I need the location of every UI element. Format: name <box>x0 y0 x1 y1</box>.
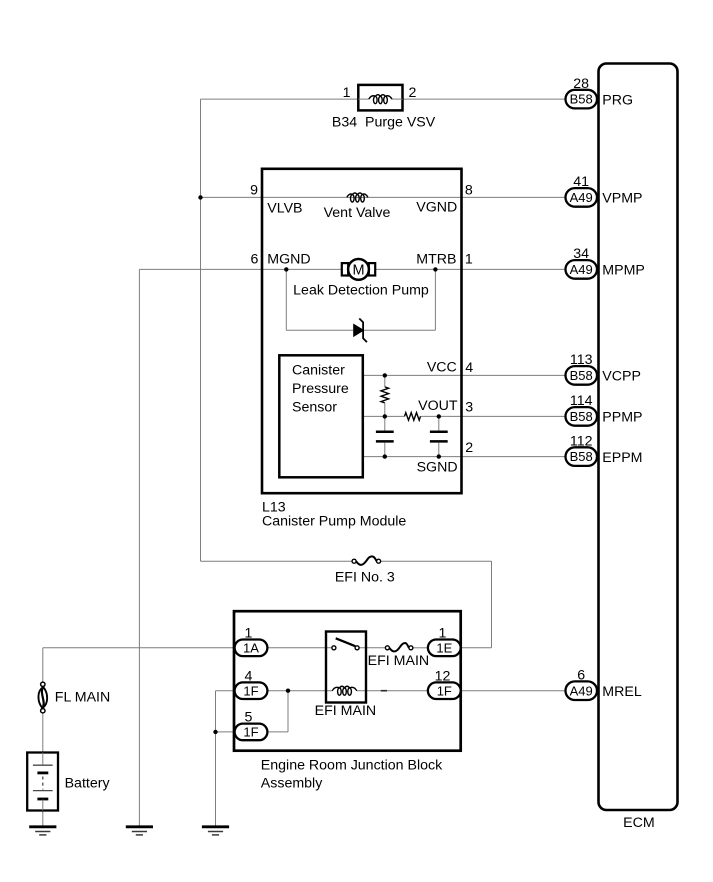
svg-text:9: 9 <box>250 182 258 198</box>
node: junction dot inside block on MREL row <box>286 689 290 693</box>
svg-text:Canister Pump Module: Canister Pump Module <box>262 513 406 529</box>
svg-text:8: 8 <box>465 182 473 198</box>
svg-text:Vent Valve: Vent Valve <box>324 205 391 221</box>
svg-text:34: 34 <box>573 246 589 262</box>
svg-text:112: 112 <box>570 433 593 449</box>
capacitor C1 (VOUT to SGND, left) <box>376 416 394 456</box>
motor M1 Leak Detection Pump <box>342 259 375 280</box>
svg-text:PPMP: PPMP <box>602 410 642 426</box>
wire: 1F-5 branch to ground rail and internal tee <box>216 691 289 732</box>
wire: VOUT net (sensor to ECM B58-114) <box>363 415 566 417</box>
node: dot SGND right junction <box>437 454 441 458</box>
svg-text:6: 6 <box>251 251 259 267</box>
svg-text:2: 2 <box>409 85 417 101</box>
wire: VCC net (sensor to ECM B58-113) <box>363 374 566 376</box>
svg-text:MREL: MREL <box>602 684 642 700</box>
ground (junction block 1F rail) <box>202 827 229 835</box>
wire: PRG net (Purge VSV pin2 to ECM B58-28, pin1 to left rail) <box>201 99 566 561</box>
svg-text:VCPP: VCPP <box>602 369 641 385</box>
svg-text:SGND: SGND <box>417 459 458 475</box>
wire: VLVB net (left rail tee to Vent Valve pin9 / VPMP to ECM A49-41) <box>201 196 566 198</box>
svg-text:FL MAIN: FL MAIN <box>55 689 110 705</box>
svg-text:MPMP: MPMP <box>602 263 645 279</box>
svg-text:1F: 1F <box>437 683 452 698</box>
node: dot VCC junction <box>383 373 387 377</box>
wire: MGND/MPMP net (ground rail, pump motor, ECM A49-34) <box>139 269 565 826</box>
resistor R1 (vertical, VCC to VOUT) <box>381 375 389 416</box>
battery BAT1 <box>27 753 58 811</box>
svg-text:28: 28 <box>573 76 589 92</box>
wire: pump bypass loop with zener <box>286 269 435 330</box>
svg-text:VPMP: VPMP <box>602 191 642 207</box>
connector 1F pin 5 <box>235 724 268 741</box>
inductor Vent Valve <box>346 193 369 202</box>
module box L13 Canister Pump Module <box>262 169 462 493</box>
connector 1A pin 1 <box>235 640 268 657</box>
connector 1E pin 1 <box>428 640 461 657</box>
svg-text:A49: A49 <box>570 190 593 205</box>
svg-text:1E: 1E <box>436 640 452 655</box>
capacitor C2 (VOUT to SGND, right) <box>430 416 448 456</box>
svg-text:PRG: PRG <box>602 92 633 108</box>
svg-text:EFI No. 3: EFI No. 3 <box>335 570 395 586</box>
svg-text:4: 4 <box>465 360 473 376</box>
connector 1F pin 4 <box>235 682 268 699</box>
wire: battery positive rail through FL MAIN <box>42 648 44 827</box>
svg-text:VLVB: VLVB <box>267 200 302 216</box>
connector A49 pin 34 (MPMP) <box>566 260 598 279</box>
connector 1F pin 12 <box>428 682 461 699</box>
svg-text:EFI MAIN: EFI MAIN <box>315 703 376 719</box>
svg-text:B58: B58 <box>570 368 593 383</box>
connector B58 pin 28 (PRG) <box>566 90 598 109</box>
wire: MREL net (1F-4 ground side, relay coil, 1F-12 to ECM A49-6) <box>216 691 566 827</box>
node: junction dot on ground rail at 1F-5 branch <box>213 730 217 734</box>
svg-text:MTRB: MTRB <box>416 251 456 267</box>
svg-text:12: 12 <box>435 668 451 684</box>
svg-text:3: 3 <box>465 400 473 416</box>
svg-text:2: 2 <box>465 440 473 456</box>
svg-text:Pressure: Pressure <box>292 381 349 397</box>
ground (MGND rail) <box>126 827 153 835</box>
svg-text:Battery: Battery <box>65 776 111 792</box>
svg-text:B58: B58 <box>570 409 593 424</box>
svg-text:6: 6 <box>577 667 585 683</box>
svg-text:5: 5 <box>244 710 252 726</box>
svg-text:114: 114 <box>570 393 593 409</box>
wire: battery feed to 1A (row through relay switch to EFI MAIN fuse and 1E) <box>43 647 428 649</box>
svg-text:MGND: MGND <box>267 251 310 267</box>
switch contact (relay) <box>332 638 359 650</box>
relay EFI MAIN (box with switch and coil) <box>326 632 366 703</box>
svg-text:1: 1 <box>244 625 252 641</box>
svg-text:Assembly: Assembly <box>261 775 323 791</box>
svg-text:B34 Purge VSV: B34 Purge VSV <box>332 114 436 130</box>
svg-text:EFI MAIN: EFI MAIN <box>368 653 429 669</box>
connector B58 pin 114 (PPMP) <box>566 407 598 426</box>
svg-text:A49: A49 <box>570 683 593 698</box>
svg-text:B58: B58 <box>570 92 593 107</box>
diode D1 (zener) on bypass loop <box>354 319 367 343</box>
svg-text:VCC: VCC <box>427 360 457 376</box>
svg-text:EPPM: EPPM <box>602 450 642 466</box>
svg-text:B58: B58 <box>570 449 593 464</box>
fuse EFI No. 3 <box>352 556 381 564</box>
svg-text:1A: 1A <box>243 640 259 655</box>
svg-text:Leak Detection Pump: Leak Detection Pump <box>293 283 429 299</box>
svg-text:4: 4 <box>244 668 252 684</box>
resistor R2 (series in VOUT) <box>405 413 421 421</box>
svg-text:VGND: VGND <box>416 199 457 215</box>
svg-text:ECM: ECM <box>623 815 655 831</box>
svg-text:Canister: Canister <box>292 363 345 379</box>
fuse EFI MAIN <box>385 643 413 651</box>
connector A49 pin 41 (VPMP) <box>566 188 598 207</box>
connector A49 pin 6 (MREL) <box>566 681 598 700</box>
svg-text:Engine Room Junction Block: Engine Room Junction Block <box>261 758 443 774</box>
wire: dark tick on MREL wire after relay <box>381 690 387 692</box>
ECM box U1 <box>599 64 678 811</box>
label Canister Pressure Sensor <box>292 363 349 416</box>
node: dot SGND left junction <box>383 454 387 458</box>
connector B58 pin 112 (EPPM) <box>566 447 598 466</box>
svg-text:Sensor: Sensor <box>292 400 337 416</box>
svg-text:1: 1 <box>343 85 351 101</box>
fusible link FL MAIN <box>38 682 47 713</box>
wire: EFI No.3 feed from left rail to junction block 1E <box>201 561 492 648</box>
svg-text:41: 41 <box>573 174 589 190</box>
relay coil EFI MAIN <box>332 686 357 695</box>
sensor box Canister Pressure Sensor <box>279 355 363 477</box>
node: junction dot MGND side of motor <box>284 267 288 271</box>
svg-text:1F: 1F <box>243 683 258 698</box>
svg-text:1: 1 <box>439 625 447 641</box>
svg-text:VOUT: VOUT <box>418 398 458 414</box>
svg-text:1: 1 <box>465 251 473 267</box>
node: junction dot on left rail at VLVB tee <box>198 195 202 199</box>
svg-text:A49: A49 <box>570 262 593 277</box>
node: dot VOUT right junction <box>437 414 441 418</box>
svg-text:M: M <box>352 263 364 279</box>
node: dot VOUT left junction <box>383 414 387 418</box>
connector B58 pin 113 (VCPP) <box>566 366 598 385</box>
node: junction dot MTRB side of motor <box>433 267 437 271</box>
wire: SGND net (sensor to ECM B58-112) <box>363 456 566 458</box>
svg-text:113: 113 <box>570 352 593 368</box>
junction block box Engine Room Junction Block Assembly <box>234 611 461 751</box>
ground (battery) <box>29 827 56 835</box>
solenoid B34 Purge VSV <box>358 85 402 111</box>
svg-text:1F: 1F <box>243 725 258 740</box>
